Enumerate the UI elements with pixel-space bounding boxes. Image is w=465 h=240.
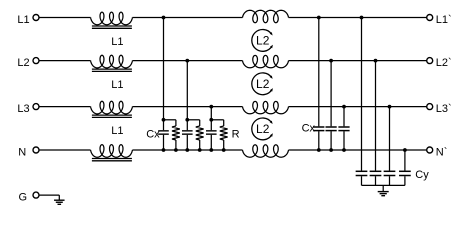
svg-text:L2`: L2` (436, 57, 452, 69)
svg-text:G: G (18, 192, 27, 204)
svg-text:L1`: L1` (436, 14, 452, 26)
svg-text:Cy: Cy (415, 169, 429, 181)
svg-text:L3`: L3` (436, 103, 452, 115)
svg-text:L1: L1 (111, 79, 123, 91)
svg-text:Cx: Cx (146, 129, 160, 141)
svg-text:L3: L3 (17, 103, 29, 115)
svg-text:L2: L2 (17, 57, 29, 69)
svg-text:L1: L1 (111, 125, 123, 137)
svg-text:R: R (232, 129, 240, 141)
svg-text:L2: L2 (256, 77, 270, 91)
svg-text:L2: L2 (256, 34, 270, 48)
svg-text:Cx: Cx (302, 123, 316, 135)
svg-text:L2: L2 (256, 122, 270, 136)
svg-text:L1: L1 (111, 36, 123, 48)
svg-text:N: N (18, 147, 26, 159)
svg-text:N`: N` (436, 147, 448, 159)
svg-text:L1: L1 (17, 14, 29, 26)
